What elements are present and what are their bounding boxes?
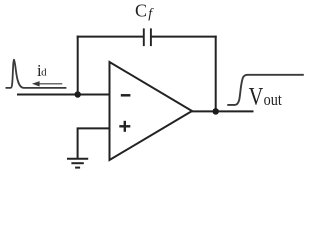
- wire input to inverting pin: [17, 94, 110, 96]
- svg-text:out: out: [264, 90, 282, 109]
- node input junction: [74, 91, 81, 98]
- wire feedback left vertical: [77, 36, 79, 95]
- output step waveform: [227, 75, 303, 105]
- wire feedback top left: [77, 36, 144, 38]
- svg-text:d: d: [41, 67, 47, 79]
- ground: [67, 159, 88, 168]
- current direction arrow: [32, 81, 62, 86]
- node output junction: [212, 108, 219, 115]
- svg-text:f: f: [148, 7, 154, 22]
- svg-text:V: V: [249, 83, 264, 110]
- non-inverting input label +: [119, 121, 130, 132]
- svg-text:C: C: [135, 1, 147, 21]
- wire output: [190, 110, 254, 112]
- inverting input label -: [121, 94, 131, 97]
- capacitor Cf: [144, 28, 151, 46]
- wire feedback top right: [151, 36, 217, 38]
- wire ground branch: [78, 128, 110, 158]
- input current pulse waveform: [6, 60, 67, 88]
- wire feedback right vertical: [215, 36, 217, 112]
- op-amp U1: [110, 62, 193, 160]
